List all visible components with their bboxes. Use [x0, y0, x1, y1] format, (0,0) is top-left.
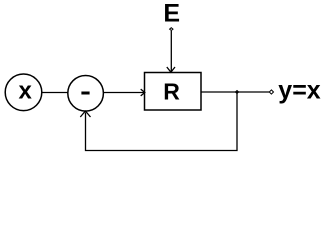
svg-text:E: E	[163, 0, 180, 28]
svg-text:y=x: y=x	[278, 76, 321, 104]
svg-text:R: R	[163, 79, 180, 105]
svg-text:x: x	[19, 78, 33, 105]
